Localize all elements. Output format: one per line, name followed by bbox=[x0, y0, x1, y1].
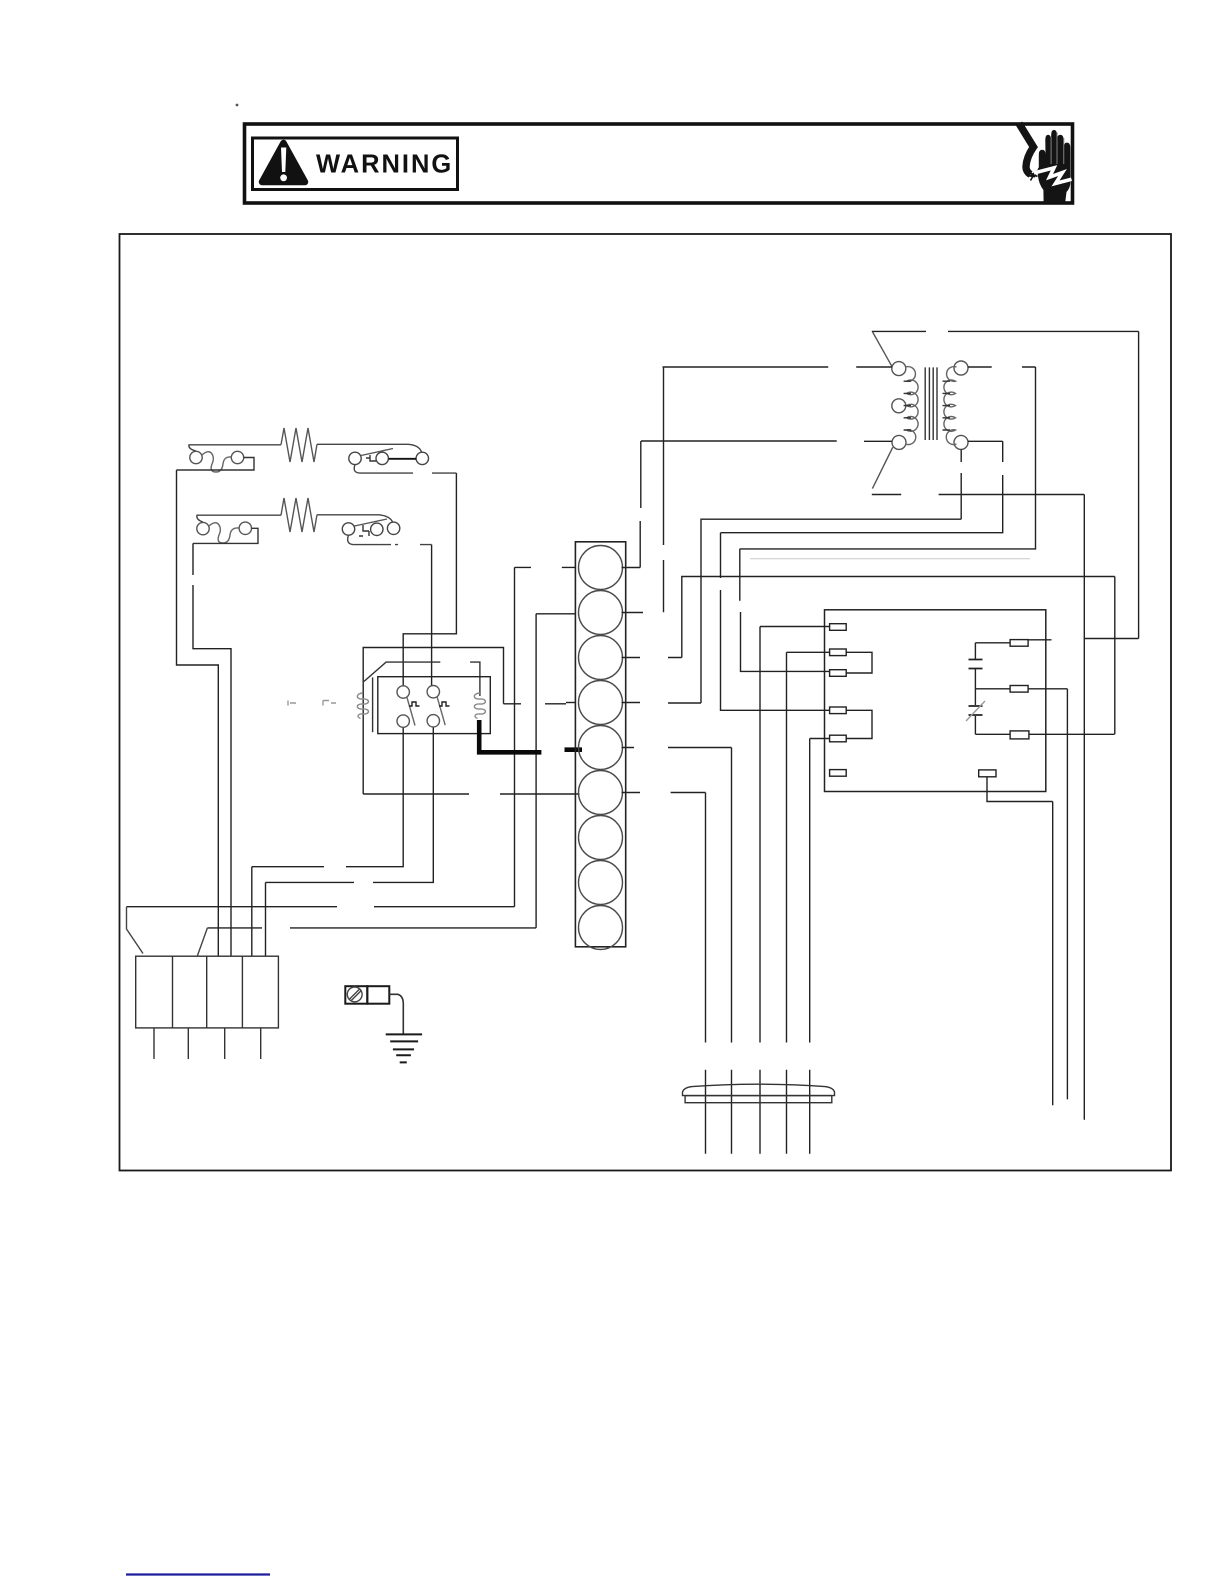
sequencer S1 hook bbox=[177, 458, 255, 471]
relay coil feed jog bbox=[364, 662, 480, 696]
board t2 drop bbox=[786, 652, 788, 1154]
secondary bottom stub bbox=[968, 440, 1003, 442]
row6 drop wire bbox=[705, 793, 707, 1154]
limit switch LS2 notch bbox=[359, 525, 369, 536]
terminal strip body bbox=[575, 542, 625, 947]
board right terminal tr1 bbox=[1010, 640, 1028, 647]
capacitor C1 bbox=[969, 660, 983, 669]
primary top wire (row2) bbox=[663, 366, 892, 368]
tr2 drop bbox=[1066, 689, 1068, 1100]
heater element HE1 wire right bbox=[317, 444, 422, 452]
transformer top diagonal bbox=[873, 332, 892, 366]
hand shock icon: cable bbox=[1019, 124, 1034, 175]
tr3 wire right bbox=[1029, 733, 1115, 735]
faint mark a bbox=[288, 701, 296, 706]
row1 right stub bbox=[622, 567, 641, 569]
secondary pin2 drop bbox=[960, 449, 962, 519]
limit switch LS1 circle L bbox=[349, 452, 361, 464]
tr2 wire right bbox=[1028, 688, 1067, 690]
relay coil left bbox=[357, 693, 368, 719]
L1 wire horizontal bbox=[127, 906, 515, 908]
sequencer S1 terminal B bbox=[231, 451, 243, 463]
L1 block entry bbox=[127, 907, 144, 954]
row5 drop wire bbox=[731, 748, 733, 1154]
primary coil ticks bbox=[904, 381, 911, 430]
control board outline bbox=[825, 610, 1046, 792]
hv wire 1139 bbox=[1138, 331, 1140, 638]
terminal block divider 3 bbox=[241, 956, 243, 1028]
L2 riser bbox=[535, 614, 537, 928]
secondary pin 1 bbox=[954, 361, 968, 375]
secondary coil bbox=[944, 367, 957, 445]
ground screw head bbox=[347, 987, 362, 1002]
board terminal t1 bbox=[830, 624, 847, 631]
hand shock icon: hand silhouette bbox=[1038, 130, 1071, 203]
primary pin 3 bbox=[892, 435, 906, 449]
warning label box bbox=[253, 138, 458, 190]
limit switch LS2 circle R bbox=[387, 522, 399, 534]
limit switch LS1 notch bbox=[366, 455, 376, 461]
row6 right stub bbox=[622, 792, 706, 794]
transformer core bbox=[925, 367, 937, 440]
board bottom drop bbox=[1052, 802, 1054, 1106]
tr1 cap link left bbox=[975, 689, 1010, 735]
L2 wire horizontal bbox=[207, 927, 536, 929]
block lead 4 bbox=[260, 1028, 262, 1059]
relay pin 3 bbox=[397, 715, 409, 727]
L1 to terminal row1 dashes bbox=[515, 566, 576, 568]
strip circle 8 bbox=[579, 861, 623, 905]
row5 right stub bbox=[622, 747, 732, 749]
relay armature bar bbox=[372, 677, 374, 732]
sequencer S2 hook bbox=[193, 528, 258, 543]
row4 riser bbox=[701, 519, 961, 703]
secondary cap drop bbox=[721, 441, 1003, 532]
strip circle 6 bbox=[579, 771, 623, 815]
row6 left wire bbox=[574, 792, 576, 794]
t4 riser bbox=[721, 533, 830, 711]
limit switch LS1 circle M bbox=[376, 452, 388, 464]
primary pin 1 bbox=[892, 362, 906, 376]
relay pin 1 bbox=[397, 686, 409, 698]
t4-t5 bracket bbox=[846, 710, 872, 738]
hand shock icon: cable tip barb bbox=[1028, 170, 1038, 178]
strip circle 2 bbox=[579, 591, 623, 635]
speck dot bbox=[236, 104, 239, 107]
sequencer S2 terminal A bbox=[197, 522, 209, 534]
limit switch LS1 circle R bbox=[416, 452, 428, 464]
ground screw box bbox=[345, 986, 367, 1004]
heater element HE2 wire right bbox=[317, 515, 393, 522]
board terminal t5 bbox=[830, 735, 847, 742]
secondary coil ticks bbox=[943, 381, 951, 430]
board t5 drop bbox=[809, 739, 811, 1154]
block lead 3 bbox=[224, 1028, 226, 1059]
board terminal t2 bbox=[830, 649, 847, 656]
relay pin3 drop bbox=[252, 727, 403, 866]
board t1 drop bbox=[759, 627, 761, 1154]
board terminal t3 bbox=[830, 670, 847, 677]
board bottom wire bbox=[987, 777, 1053, 802]
svg-text:WARNING: WARNING bbox=[316, 151, 453, 179]
board terminal t4 bbox=[830, 707, 847, 714]
limit switch LS1 link bbox=[389, 458, 416, 460]
connector base bbox=[685, 1096, 832, 1103]
capacitor C2 bbox=[969, 706, 983, 715]
heater element HE2 bbox=[281, 498, 317, 532]
relay contact mark 1 bbox=[409, 702, 420, 706]
primary coil bbox=[906, 367, 919, 445]
primary bottom wire (row1) bbox=[641, 440, 892, 442]
row4 right stub bbox=[622, 702, 702, 705]
heater element HE1 wire left bbox=[189, 445, 281, 451]
sequencer S1 terminal A bbox=[190, 451, 202, 463]
relay contact mark 2 bbox=[439, 702, 450, 706]
block lead 2 bbox=[187, 1028, 189, 1059]
limit switch LS2 return arc bbox=[348, 535, 432, 544]
relay pin 4 bbox=[427, 715, 439, 727]
cap to tr1 link bbox=[975, 642, 1010, 644]
relay outer top bbox=[363, 648, 503, 795]
board right terminal tr3 bbox=[1010, 731, 1029, 739]
hv wire 1084 bbox=[1083, 495, 1085, 1120]
relay box bbox=[378, 677, 491, 734]
warning triangle icon bbox=[262, 143, 305, 182]
strip circle 4 bbox=[579, 681, 623, 725]
relay coil right bbox=[474, 693, 485, 719]
relay pin3 drop corner bbox=[251, 867, 253, 957]
limit switch LS2 circle L bbox=[342, 523, 354, 535]
row3 bracket bbox=[682, 577, 1115, 658]
row2 riser to transformer bbox=[663, 367, 665, 612]
branch2 drop wire bbox=[193, 543, 231, 956]
tr3 riser bbox=[1114, 577, 1116, 735]
cap chain vertical bbox=[974, 643, 976, 735]
terminal block divider 2 bbox=[206, 956, 208, 1028]
relay outer to row4 dashes bbox=[504, 703, 567, 705]
row2 right stub bbox=[622, 612, 644, 614]
terminal block TB bbox=[136, 956, 279, 1028]
tr1 wire right bbox=[1028, 639, 1051, 641]
limit switch LS1 blade bbox=[361, 449, 393, 456]
diagram border bbox=[120, 234, 1172, 1171]
transformer top line bbox=[872, 330, 1139, 332]
board wire t5 bbox=[810, 738, 830, 740]
board wire t2 bbox=[787, 651, 830, 653]
thick wire relay to row5 bbox=[479, 720, 541, 752]
sequencer S1 squiggle bbox=[202, 452, 232, 472]
board wire t1 bbox=[760, 626, 830, 628]
L2 to terminal row2 bbox=[536, 613, 575, 615]
lightning bolt over hand bbox=[1034, 168, 1072, 184]
hv link 1084-1139 bbox=[1084, 638, 1138, 640]
board terminal t6 bbox=[830, 770, 847, 777]
t2-t3 bracket bbox=[846, 652, 872, 673]
strip circle 5 bbox=[579, 726, 623, 770]
strip circle 3 bbox=[579, 636, 623, 680]
thick wire dash bbox=[565, 747, 583, 752]
secondary to board t3 riser bbox=[740, 549, 830, 672]
branch2 return corner bbox=[431, 545, 433, 686]
secondary pin 2 bbox=[954, 435, 968, 449]
hand finger separators bbox=[1051, 133, 1064, 165]
warning banner frame bbox=[245, 124, 1073, 203]
relay pin4 drop bbox=[266, 727, 434, 882]
ground wire bbox=[389, 994, 403, 1034]
secondary top stub bbox=[968, 366, 1036, 368]
relay pin 2 bbox=[427, 686, 439, 698]
branch1 return corner bbox=[403, 473, 456, 686]
relay blade 2 bbox=[437, 697, 445, 725]
faint mark b bbox=[323, 701, 336, 706]
footer rule (blue) bbox=[126, 1573, 270, 1575]
terminal block divider 1 bbox=[172, 956, 174, 1028]
sequencer S2 squiggle bbox=[209, 523, 239, 543]
block lead 1 bbox=[153, 1028, 155, 1059]
ground symbol bbox=[386, 1034, 422, 1062]
relay blade 1 bbox=[407, 698, 415, 726]
sequencer S2 terminal B bbox=[239, 522, 251, 534]
primary pin 2 bbox=[892, 399, 906, 413]
L1 riser bbox=[514, 567, 516, 906]
board right terminal tr2 bbox=[1010, 686, 1028, 693]
branch1 drop wire bbox=[177, 470, 219, 956]
transformer bottom line bbox=[872, 494, 1085, 496]
transformer bottom diagonal bbox=[872, 447, 892, 488]
limit switch LS1 return arc bbox=[354, 465, 456, 474]
strip circle 9 bbox=[579, 906, 623, 950]
row1 riser to transformer bbox=[639, 441, 642, 568]
strip circle 7 bbox=[579, 816, 623, 860]
board bottom terminal bbox=[979, 770, 996, 777]
strip circle 1 bbox=[579, 546, 623, 590]
heater element HE2 wire left bbox=[197, 515, 281, 522]
row3 right stub bbox=[622, 657, 682, 659]
heater element HE1 bbox=[281, 428, 317, 462]
L2 block entry bbox=[198, 928, 208, 956]
limit switch LS2 circle M bbox=[371, 523, 383, 535]
secondary bracket right bbox=[740, 367, 1036, 549]
connector shell bbox=[683, 1084, 835, 1095]
capacitor C2 slash bbox=[966, 701, 985, 721]
limit switch LS2 blade bbox=[355, 519, 388, 526]
relay pin4 drop corner bbox=[265, 882, 267, 956]
row4 left stub bbox=[566, 702, 575, 704]
faint scan line bbox=[750, 558, 1030, 560]
relay outer bottom bbox=[363, 793, 579, 795]
